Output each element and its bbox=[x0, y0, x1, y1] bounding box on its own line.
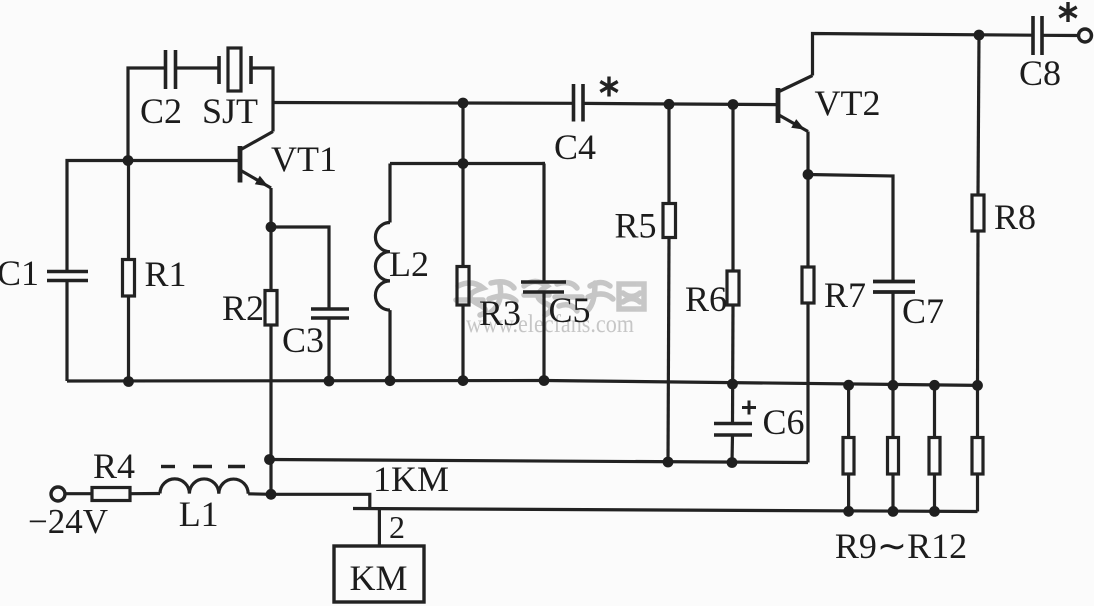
node: R9 on bus bbox=[843, 380, 854, 391]
relay coil KM box bbox=[334, 546, 424, 602]
resistor R2 bbox=[265, 291, 277, 326]
transistor VT1 bbox=[240, 132, 273, 189]
node: R5 on keyed line bbox=[663, 457, 674, 468]
resistor R6 bbox=[727, 271, 739, 305]
node: R5 on rail bbox=[664, 99, 675, 110]
wire: lower keyed rail bbox=[353, 509, 978, 512]
wire: VT2 emitter down to node bbox=[806, 132, 809, 175]
capacitor C2 bbox=[166, 50, 176, 89]
wire: C2 to SJT bbox=[176, 66, 220, 69]
node: R10/C7 on bus bbox=[888, 380, 899, 391]
wire: keyed emitter line bbox=[269, 460, 808, 463]
output terminal bbox=[1079, 29, 1092, 42]
resistor R11 bbox=[929, 438, 940, 475]
svg-text:R3: R3 bbox=[479, 293, 521, 333]
node: VT2 emitter bbox=[803, 169, 814, 180]
svg-text:VT1: VT1 bbox=[271, 139, 337, 179]
resistor R7 bbox=[802, 267, 814, 303]
wire: tank drop from rail bbox=[461, 103, 464, 164]
crystal SJT bbox=[219, 48, 251, 91]
core dashes of L1 bbox=[161, 465, 245, 468]
node: VT1 base bbox=[123, 155, 134, 166]
inductor L2 bbox=[375, 164, 390, 381]
svg-text:C8: C8 bbox=[1019, 53, 1061, 93]
resistor R8 bbox=[972, 195, 984, 231]
wire: VT1 base wire bbox=[128, 159, 239, 162]
transistor VT2 bbox=[778, 76, 813, 132]
svg-text:R8: R8 bbox=[994, 197, 1036, 237]
wire: top rail right of C8 bbox=[1042, 34, 1079, 37]
node: inner rail junction bbox=[458, 158, 469, 169]
wire: C5 branch bbox=[544, 164, 545, 283]
wire: R4 to L1 bbox=[130, 492, 160, 495]
wire: ground bus bbox=[67, 381, 978, 386]
svg-text:SJT: SJT bbox=[202, 91, 258, 131]
svg-text:C3: C3 bbox=[282, 320, 324, 360]
asterisk near C4 bbox=[600, 77, 617, 97]
wire: emitter node to C3 branch bbox=[271, 227, 329, 309]
capacitor C6 bbox=[714, 424, 752, 436]
wire: R1 branch bbox=[127, 161, 130, 260]
node: C5 on bus bbox=[539, 375, 550, 386]
capacitor C3 bbox=[311, 309, 349, 318]
wire: drop to relay coil KM bbox=[378, 509, 381, 546]
node: C3 on bus bbox=[324, 376, 335, 387]
svg-text:C7: C7 bbox=[902, 291, 944, 331]
wire: input to R4 bbox=[66, 492, 93, 495]
wire: R12 branch bbox=[976, 385, 979, 437]
node: tank tap on rail bbox=[458, 98, 469, 109]
node: C6 on keyed line bbox=[727, 457, 738, 468]
svg-text:VT2: VT2 bbox=[815, 83, 881, 123]
wire: VT1 emitter down to node bbox=[269, 188, 272, 227]
plus sign of C6 bbox=[742, 401, 756, 415]
svg-text:C5: C5 bbox=[548, 290, 590, 330]
svg-text:R2: R2 bbox=[222, 288, 264, 328]
node: R6/C6 on bus bbox=[727, 379, 738, 390]
resistor R4 bbox=[92, 488, 130, 501]
svg-text:R1: R1 bbox=[144, 254, 186, 294]
input terminal -24V bbox=[51, 487, 65, 501]
node: R11 on bus bbox=[929, 380, 940, 391]
wire: R11 branch bbox=[933, 385, 936, 437]
node: R6 on rail bbox=[728, 99, 739, 110]
svg-text:2: 2 bbox=[389, 509, 405, 545]
capacitor C8 bbox=[1033, 16, 1042, 55]
wire: collector rail right of C4 to VT2 base bbox=[583, 103, 778, 104]
node: L2 on bus bbox=[385, 375, 396, 386]
svg-text:R9∼R12: R9∼R12 bbox=[835, 526, 967, 566]
inductor L1 bbox=[160, 479, 248, 494]
node: R12/R8 on bus bbox=[972, 380, 983, 391]
svg-text:L2: L2 bbox=[389, 244, 429, 284]
svg-text:KM: KM bbox=[349, 558, 407, 598]
wire: R7 branch bbox=[806, 175, 809, 268]
node: R2 on keyed line bbox=[264, 454, 275, 465]
wire: R3 branch bbox=[461, 164, 464, 267]
resistor R3 bbox=[457, 267, 469, 306]
node: R10 on lower rail bbox=[888, 506, 899, 517]
resistor R12 bbox=[972, 438, 983, 475]
svg-text:R5: R5 bbox=[614, 206, 656, 246]
node: R9 on lower rail bbox=[843, 506, 854, 517]
svg-text:−24V: −24V bbox=[28, 502, 108, 541]
resistor R1 bbox=[123, 260, 135, 297]
node: R1 on bus bbox=[123, 376, 134, 387]
wire: R8 branch bbox=[978, 35, 979, 195]
resistor R9 bbox=[843, 438, 854, 475]
wire: SJT to collector vertical bbox=[251, 68, 273, 132]
asterisk near C8 bbox=[1059, 2, 1076, 22]
wire: feedback loop left vertical bbox=[128, 68, 165, 161]
svg-text:L1: L1 bbox=[179, 494, 219, 534]
svg-text:R6: R6 bbox=[685, 279, 727, 319]
wire: VT2 collector up and top rail bbox=[813, 34, 1034, 76]
wire: R10 branch bbox=[891, 385, 894, 437]
resistor R10 bbox=[888, 438, 899, 475]
wire: C1 branch left vertical and top bbox=[67, 161, 128, 272]
wire: tank inner rail bbox=[390, 162, 545, 165]
wire: emitter node rail to C7 bbox=[808, 175, 893, 282]
wire: VT1 collector rail (left of C4) bbox=[273, 101, 574, 105]
node: R11 on lower rail bbox=[929, 506, 940, 517]
capacitor C5 bbox=[521, 282, 566, 292]
wire: R5 branch bbox=[667, 104, 670, 203]
svg-text:C6: C6 bbox=[762, 402, 804, 442]
svg-text:1KM: 1KM bbox=[373, 459, 449, 499]
resistor R5 bbox=[663, 204, 676, 238]
wire: R9 branch bbox=[847, 385, 850, 437]
relay contact 1KM bbox=[271, 494, 370, 508]
svg-text:C1: C1 bbox=[0, 253, 39, 293]
node: R3 on bus bbox=[458, 375, 469, 386]
capacitor C4 bbox=[574, 84, 584, 122]
node: L1 input node bbox=[266, 489, 277, 500]
svg-text:C2: C2 bbox=[140, 91, 182, 131]
watermark: calligraphic chinese characters bbox=[456, 282, 644, 316]
wire: R6/C6 branch bbox=[731, 105, 734, 272]
wire: R2 branch bbox=[269, 227, 272, 291]
svg-text:C4: C4 bbox=[554, 127, 596, 167]
capacitor C1 bbox=[47, 272, 88, 281]
svg-text:R7: R7 bbox=[824, 275, 866, 315]
svg-text:R4: R4 bbox=[93, 446, 135, 486]
wire: L1 to node bbox=[248, 492, 271, 496]
node: VT1 emitter bbox=[266, 222, 277, 233]
node: R8 on top rail bbox=[974, 30, 985, 41]
capacitor C7 bbox=[873, 282, 915, 293]
